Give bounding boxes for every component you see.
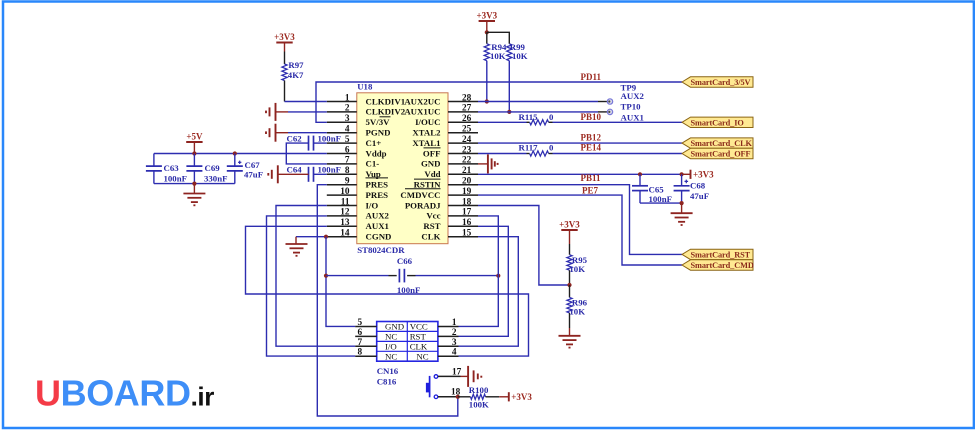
- resistor R97 4K7: [282, 52, 304, 102]
- svg-text:16: 16: [462, 218, 472, 228]
- resistor R99 10K: [507, 42, 528, 112]
- wire pin12 AUX2 to CN16 pin8: [267, 216, 356, 356]
- junction: [680, 201, 684, 205]
- svg-text:C66: C66: [397, 256, 413, 266]
- svg-text:PORADJ: PORADJ: [405, 200, 441, 210]
- junction: [192, 182, 196, 186]
- svg-text:10K: 10K: [569, 264, 585, 274]
- wire pin26 I/OUC to R115: [478, 121, 527, 123]
- capacitor C65 100nF: [632, 174, 672, 204]
- svg-text:5: 5: [345, 135, 350, 145]
- svg-text:C64: C64: [287, 165, 303, 175]
- svg-text:10K: 10K: [490, 51, 506, 61]
- svg-text:C1-: C1-: [366, 159, 380, 169]
- svg-text:PE7: PE7: [582, 185, 599, 195]
- svg-text:C63: C63: [164, 163, 180, 173]
- svg-text:PE14: PE14: [581, 143, 602, 153]
- svg-text:10K: 10K: [569, 307, 585, 317]
- svg-text:RST: RST: [423, 221, 440, 231]
- ground (sideways) at pin 2 CLKDIV2: [266, 103, 288, 121]
- ground (sideways) at pin 4 PGND: [266, 124, 288, 142]
- junction: [324, 274, 328, 278]
- svg-text:R115: R115: [519, 112, 539, 122]
- svg-text:OFF: OFF: [423, 148, 441, 158]
- wire pin20 RSTIN to SmartCard_RST: [478, 185, 682, 255]
- svg-text:SmartCard_RST: SmartCard_RST: [691, 251, 751, 260]
- svg-text:47uF: 47uF: [690, 191, 709, 201]
- svg-text:Vddp: Vddp: [366, 148, 387, 158]
- resistor R100 100K: [458, 385, 499, 410]
- svg-text:CLKDIV1: CLKDIV1: [366, 96, 406, 106]
- svg-text:+3V3: +3V3: [559, 219, 580, 229]
- wire CGND down to C66 and CN16 pin5: [326, 237, 355, 327]
- svg-text:11: 11: [341, 197, 350, 207]
- svg-text:6: 6: [358, 328, 363, 338]
- svg-text:UBOARD.ir: UBOARD.ir: [35, 373, 214, 414]
- svg-text:SmartCard_OFF: SmartCard_OFF: [691, 150, 751, 159]
- port SmartCard_OFF: [682, 148, 753, 158]
- svg-text:NC: NC: [416, 351, 428, 361]
- wire pin24 XTAL1 to SmartCard_CLK: [478, 142, 682, 144]
- svg-text:100nF: 100nF: [318, 165, 341, 175]
- ground (sideways) at pin22 GND: [478, 154, 498, 173]
- junction: [456, 395, 460, 399]
- wire pin23 OFF to R117: [478, 153, 527, 155]
- svg-text:PGND: PGND: [366, 128, 391, 138]
- svg-text:0: 0: [549, 112, 554, 122]
- ground below R96: [559, 328, 581, 348]
- svg-text:C69: C69: [205, 163, 221, 173]
- svg-text:VCC: VCC: [410, 322, 428, 332]
- power +3V3 (R97): [274, 32, 295, 52]
- wire pin18 to junction: [438, 396, 458, 398]
- svg-text:GND: GND: [385, 322, 404, 332]
- resistor R96 10K: [567, 285, 588, 328]
- svg-text:19: 19: [462, 187, 472, 197]
- svg-text:R97: R97: [288, 60, 304, 70]
- power +3V3 (Vdd): [682, 169, 715, 179]
- svg-text:Vdd: Vdd: [424, 169, 440, 179]
- svg-text:100nF: 100nF: [397, 285, 420, 295]
- power +3V3 (R100): [499, 392, 532, 402]
- svg-text:AUX2: AUX2: [366, 211, 390, 221]
- wire +5V rail to pin6 Vddp: [154, 153, 327, 155]
- svg-text:10: 10: [340, 187, 350, 197]
- wire pin15 CLK down to CN16 pin3 CLK: [459, 237, 519, 347]
- svg-text:CLK: CLK: [421, 232, 440, 242]
- svg-text:26: 26: [462, 114, 472, 124]
- svg-text:PD11: PD11: [581, 72, 602, 82]
- port SmartCard_3/5V: [682, 77, 753, 87]
- ground below C68: [671, 203, 693, 225]
- svg-text:PRES: PRES: [366, 190, 389, 200]
- wire R115 to SmartCard_IO: [553, 121, 683, 123]
- junction: [496, 274, 500, 278]
- svg-text:AUX1UC: AUX1UC: [404, 107, 440, 117]
- svg-text:I/O: I/O: [385, 341, 397, 351]
- capacitor C63 100nF: [146, 154, 187, 184]
- svg-text:CMDVCC: CMDVCC: [400, 190, 440, 200]
- svg-text:Vcc: Vcc: [426, 211, 440, 221]
- svg-text:330nF: 330nF: [204, 174, 227, 184]
- svg-text:4: 4: [345, 125, 350, 135]
- testpoint TP9: [607, 82, 644, 104]
- svg-text:C1+: C1+: [366, 138, 382, 148]
- wire pin17 to sideways ground: [438, 366, 481, 387]
- U18 active-low overlines: [366, 117, 441, 189]
- wire pin17 Vcc down to CN16 pin1 VCC: [459, 216, 499, 327]
- svg-text:22: 22: [462, 156, 472, 166]
- svg-text:6: 6: [345, 145, 350, 155]
- junction: [485, 30, 489, 34]
- wire pin21 Vdd rail: [478, 173, 682, 175]
- wire R117 to SmartCard_OFF: [553, 153, 683, 155]
- svg-text:I/OUC: I/OUC: [415, 117, 440, 127]
- wire +3V3 to R99 top: [487, 32, 510, 43]
- svg-text:5V/3V: 5V/3V: [366, 117, 391, 127]
- svg-text:8: 8: [358, 348, 363, 358]
- ground at pin14 CGND: [286, 237, 308, 256]
- power +3V3 (R94/R99): [476, 10, 497, 32]
- wire pin18 PORADJ to R95/R96 divider: [478, 206, 570, 286]
- UBOARD.ir logo: [35, 373, 214, 414]
- svg-text:20: 20: [462, 177, 472, 187]
- svg-text:R117: R117: [519, 143, 539, 153]
- capacitor C67 47uF (polarized): [227, 154, 263, 184]
- wire pin9 PRES to card switch: [317, 185, 458, 416]
- svg-text:+3V3: +3V3: [274, 32, 295, 42]
- capacitor C64 100nF (Vup): [287, 165, 341, 182]
- svg-text:28: 28: [462, 93, 472, 103]
- svg-text:C67: C67: [245, 160, 261, 170]
- junction: [192, 151, 196, 155]
- wire pin1 CLKDIV1 to R97: [285, 101, 327, 103]
- svg-text:SmartCard_3/5V: SmartCard_3/5V: [691, 78, 751, 87]
- svg-text:U18: U18: [357, 82, 373, 92]
- resistor R94 10K: [484, 32, 507, 101]
- svg-text:CLK: CLK: [410, 341, 428, 351]
- svg-text:0: 0: [549, 143, 554, 153]
- svg-text:SmartCard_CLK: SmartCard_CLK: [691, 139, 753, 148]
- svg-text:R100: R100: [469, 385, 489, 395]
- svg-text:14: 14: [340, 229, 350, 239]
- wire pin14 CGND: [296, 236, 327, 238]
- junction: [638, 172, 642, 176]
- U18 pin stubs, numbers and names: [327, 93, 478, 241]
- IC U18 ST8024CDR body: [357, 82, 448, 255]
- svg-text:7: 7: [345, 156, 350, 166]
- svg-text:5: 5: [358, 318, 363, 328]
- svg-text:C816: C816: [377, 377, 397, 387]
- port SmartCard_RST: [682, 249, 753, 259]
- svg-text:4: 4: [452, 348, 457, 358]
- port SmartCard_CMD: [682, 260, 753, 270]
- svg-text:27: 27: [462, 104, 472, 114]
- svg-text:CN16: CN16: [377, 366, 399, 376]
- junction: [485, 99, 489, 103]
- testpoint TP10: [607, 102, 644, 123]
- svg-text:12: 12: [340, 208, 350, 218]
- svg-text:+3V3: +3V3: [476, 10, 497, 20]
- resistor R117 0: [519, 143, 555, 157]
- svg-text:+3V3: +3V3: [511, 392, 532, 402]
- svg-text:13: 13: [340, 218, 350, 228]
- svg-text:4K7: 4K7: [288, 70, 304, 80]
- svg-text:C68: C68: [690, 180, 706, 190]
- svg-text:RST: RST: [410, 332, 427, 342]
- switch contact pins 17/18 of CN16: [426, 367, 462, 398]
- svg-text:100K: 100K: [469, 399, 489, 409]
- svg-text:8: 8: [345, 166, 350, 176]
- svg-text:17: 17: [462, 208, 472, 218]
- junction: [567, 283, 571, 287]
- power +3V3 (R95): [559, 219, 580, 244]
- capacitor C66 100nF: [326, 256, 498, 295]
- svg-text:3: 3: [345, 114, 350, 124]
- svg-text:PB11: PB11: [581, 173, 602, 183]
- svg-text:PB12: PB12: [581, 132, 602, 142]
- svg-text:PB10: PB10: [581, 112, 602, 122]
- wire pin2: [288, 111, 327, 113]
- svg-text:C65: C65: [649, 184, 665, 194]
- svg-text:ST8024CDR: ST8024CDR: [357, 245, 405, 255]
- svg-text:100nF: 100nF: [164, 174, 187, 184]
- svg-text:AUX2: AUX2: [621, 91, 645, 101]
- wire pin11 I/O to CN16 pin7: [276, 206, 355, 347]
- svg-text:SmartCard_IO: SmartCard_IO: [691, 118, 745, 127]
- svg-text:RSTIN: RSTIN: [414, 180, 442, 190]
- port SmartCard_CLK: [682, 138, 753, 148]
- wire pin4: [288, 132, 327, 134]
- svg-text:TP10: TP10: [621, 102, 642, 112]
- junction: [507, 110, 511, 114]
- svg-text:NC: NC: [385, 332, 397, 342]
- port SmartCard_IO: [682, 117, 753, 127]
- junction: [324, 235, 328, 239]
- svg-text:+3V3: +3V3: [693, 169, 714, 179]
- wire pin27 AUX1UC to TP10: [478, 111, 598, 113]
- wire pin16 RST down to CN16 pin2 RST: [459, 226, 509, 336]
- svg-text:21: 21: [462, 166, 472, 176]
- ground (sideways) at C64: [268, 165, 308, 183]
- capacitor C62 100nF (C1+ to C1-): [287, 133, 341, 150]
- svg-text:AUX2UC: AUX2UC: [404, 96, 440, 106]
- svg-text:I/O: I/O: [366, 200, 379, 210]
- svg-text:2: 2: [345, 104, 350, 114]
- svg-text:CLKDIV2: CLKDIV2: [366, 107, 406, 117]
- svg-text:C62: C62: [287, 133, 303, 143]
- capacitor C69 330nF: [186, 154, 227, 184]
- svg-text:25: 25: [462, 125, 472, 135]
- wire pin3 5V/3V up and right to SmartCard_3/5V: [316, 82, 682, 122]
- svg-text:NC: NC: [385, 351, 397, 361]
- svg-text:3: 3: [452, 338, 457, 348]
- svg-text:1: 1: [452, 318, 457, 328]
- svg-text:23: 23: [462, 145, 472, 155]
- svg-text:SmartCard_CMD: SmartCard_CMD: [691, 261, 754, 270]
- svg-text:PRES: PRES: [366, 180, 389, 190]
- connector CN16 C816 body: [377, 322, 438, 387]
- wire pin19 CMDVCC to SmartCard_CMD: [478, 195, 682, 265]
- svg-text:10K: 10K: [512, 51, 528, 61]
- svg-text:15: 15: [462, 229, 472, 239]
- svg-text:1: 1: [345, 93, 350, 103]
- ground below +5V caps: [183, 184, 205, 206]
- svg-text:+5V: +5V: [186, 131, 203, 141]
- wire bottom rail of +5V caps: [154, 183, 235, 185]
- svg-text:XTAL2: XTAL2: [412, 128, 441, 138]
- capacitor C68 47uF (polarized): [674, 174, 709, 203]
- wire pin13 AUX1 to CN16 pin4: [246, 226, 529, 356]
- svg-text:CGND: CGND: [366, 232, 392, 242]
- svg-text:2: 2: [452, 328, 457, 338]
- junction: [233, 151, 237, 155]
- resistor R115 0: [519, 112, 555, 125]
- wire C62 left to pin7 C1-: [286, 143, 327, 164]
- svg-text:XTAL1: XTAL1: [412, 138, 440, 148]
- svg-text:AUX1: AUX1: [366, 221, 389, 231]
- svg-text:7: 7: [358, 338, 363, 348]
- svg-text:18: 18: [462, 197, 472, 207]
- junction: [680, 172, 684, 176]
- svg-text:100nF: 100nF: [318, 133, 341, 143]
- svg-text:24: 24: [462, 135, 472, 145]
- wire C65/C68 bottom rail: [640, 202, 682, 204]
- wire pin28 AUX2UC to TP9: [478, 101, 598, 103]
- CN16 pin stubs and numbers: [355, 318, 458, 358]
- svg-text:GND: GND: [421, 159, 441, 169]
- svg-text:AUX1: AUX1: [621, 112, 644, 122]
- resistor R95 10K: [567, 244, 588, 285]
- svg-text:47uF: 47uF: [244, 170, 263, 180]
- power +5V: [186, 131, 203, 153]
- svg-text:9: 9: [345, 177, 350, 187]
